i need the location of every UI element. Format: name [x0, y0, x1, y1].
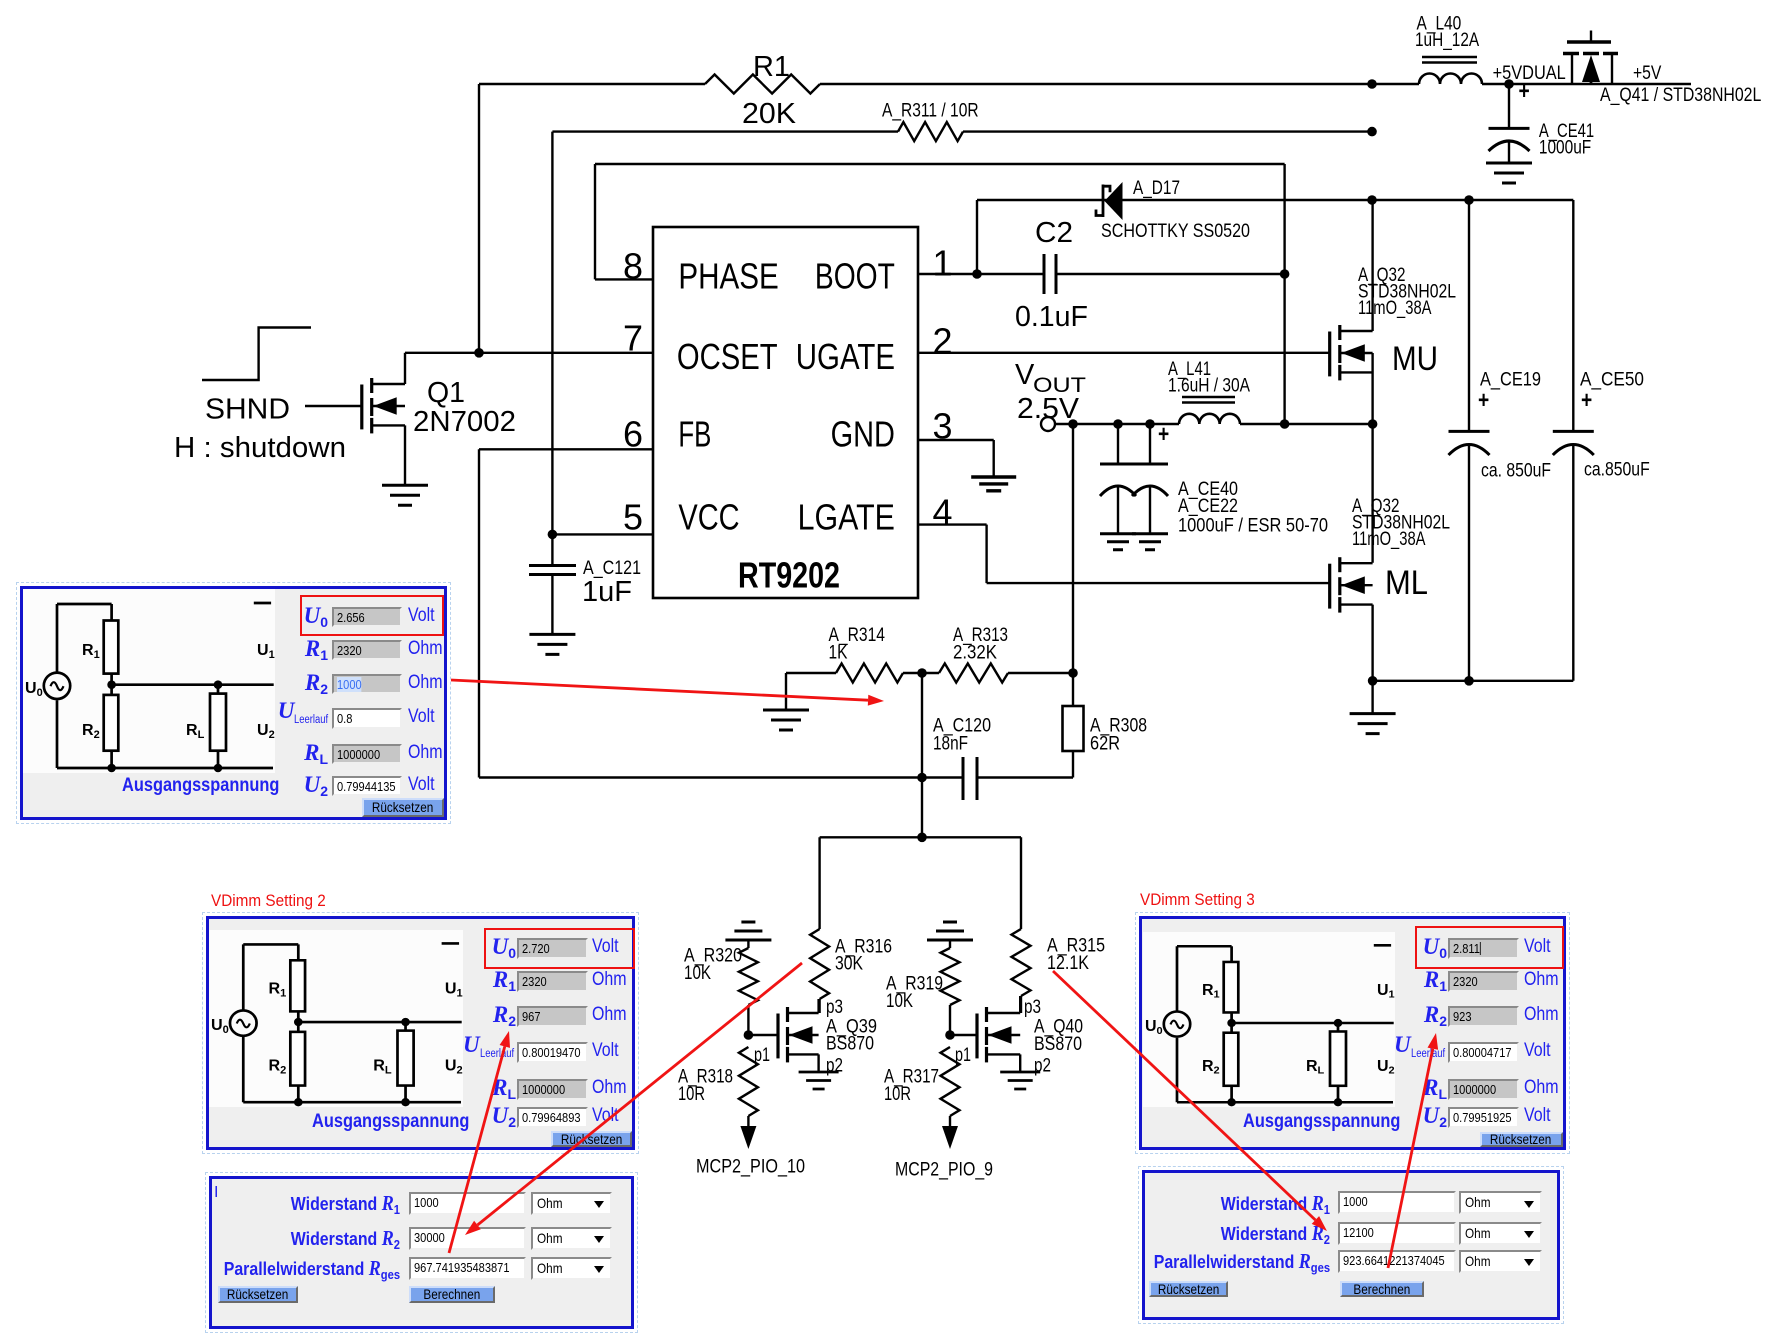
svg-text:RL: RL: [373, 1058, 392, 1077]
svg-text:1: 1: [933, 242, 953, 283]
svg-text:ML: ML: [1385, 564, 1428, 602]
svg-text:BOOT: BOOT: [815, 255, 895, 296]
svg-text:4: 4: [933, 492, 953, 533]
svg-text:RT9202: RT9202: [738, 555, 840, 596]
svg-text:p2: p2: [826, 1056, 843, 1077]
svg-text:62R: 62R: [1090, 734, 1120, 755]
svg-text:p1: p1: [955, 1045, 971, 1066]
svg-text:1000uF / ESR 50-70: 1000uF / ESR 50-70: [1178, 516, 1328, 537]
svg-text:p3: p3: [826, 997, 843, 1018]
svg-text:GND: GND: [831, 413, 895, 454]
svg-text:R1: R1: [268, 981, 286, 1000]
svg-text:10R: 10R: [884, 1084, 911, 1105]
svg-text:1.6uH / 30A: 1.6uH / 30A: [1168, 376, 1250, 397]
svg-text:11mO_38A: 11mO_38A: [1358, 298, 1432, 319]
svg-text:Q1: Q1: [427, 377, 465, 409]
svg-text:20K: 20K: [742, 98, 797, 130]
svg-text:A_D17: A_D17: [1133, 178, 1180, 199]
svg-text:10K: 10K: [886, 991, 913, 1012]
svg-text:11mO_38A: 11mO_38A: [1352, 529, 1426, 550]
svg-text:2N7002: 2N7002: [413, 406, 516, 438]
svg-text:U0: U0: [1145, 1018, 1163, 1036]
svg-text:5: 5: [623, 496, 643, 537]
svg-text:1uH_12A: 1uH_12A: [1415, 30, 1479, 51]
svg-text:ca.850uF: ca.850uF: [1584, 460, 1650, 481]
svg-text:U0: U0: [25, 680, 43, 699]
svg-text:RL: RL: [186, 722, 205, 741]
svg-text:10R: 10R: [678, 1084, 705, 1105]
svg-text:OCSET: OCSET: [677, 336, 778, 377]
svg-text:6: 6: [623, 413, 643, 454]
svg-text:1K: 1K: [829, 643, 848, 664]
svg-text:10K: 10K: [684, 963, 711, 984]
svg-text:R1: R1: [753, 51, 790, 83]
svg-text:ca. 850uF: ca. 850uF: [1481, 461, 1551, 482]
svg-text:LGATE: LGATE: [798, 496, 895, 537]
svg-text:R2: R2: [82, 722, 100, 741]
svg-text:30K: 30K: [835, 954, 863, 975]
svg-text:UGATE: UGATE: [796, 336, 895, 377]
svg-text:FB: FB: [678, 413, 711, 454]
svg-text:VCC: VCC: [678, 496, 739, 537]
svg-text:12.1K: 12.1K: [1047, 953, 1089, 974]
svg-text:8: 8: [623, 245, 643, 286]
svg-text:R2: R2: [1202, 1058, 1220, 1076]
svg-text:+5V: +5V: [1633, 63, 1662, 84]
svg-text:U2: U2: [445, 1058, 463, 1077]
svg-text:PHASE: PHASE: [678, 255, 778, 296]
svg-text:p3: p3: [1024, 997, 1041, 1018]
svg-text:A_CE22: A_CE22: [1178, 496, 1238, 517]
svg-text:U0: U0: [211, 1017, 229, 1036]
svg-text:p2: p2: [1034, 1056, 1051, 1077]
svg-text:C2: C2: [1035, 217, 1073, 249]
svg-text:2.32K: 2.32K: [953, 643, 997, 664]
svg-text:H : shutdown: H : shutdown: [174, 432, 346, 464]
svg-text:R2: R2: [268, 1058, 286, 1077]
svg-text:SCHOTTKY SS0520: SCHOTTKY SS0520: [1101, 221, 1250, 242]
svg-text:MCP2_PIO_10: MCP2_PIO_10: [696, 1157, 805, 1178]
svg-text:A_R311 / 10R: A_R311 / 10R: [882, 101, 979, 122]
svg-text:1000uF: 1000uF: [1539, 138, 1591, 159]
svg-text:+: +: [1478, 387, 1489, 414]
svg-text:MU: MU: [1392, 340, 1438, 378]
svg-text:2: 2: [933, 321, 953, 362]
svg-text:18nF: 18nF: [933, 734, 968, 755]
svg-text:A_Q41 / STD38NH02L: A_Q41 / STD38NH02L: [1600, 85, 1761, 106]
svg-text:V: V: [1015, 359, 1035, 391]
svg-text:R1: R1: [1202, 982, 1220, 1000]
svg-text:7: 7: [623, 318, 643, 359]
svg-text:R1: R1: [82, 642, 100, 661]
svg-text:RL: RL: [1306, 1058, 1325, 1076]
svg-text:BS870: BS870: [826, 1034, 874, 1055]
svg-text:1uF: 1uF: [582, 576, 632, 608]
svg-text:+: +: [1581, 387, 1592, 414]
svg-text:+: +: [1519, 78, 1530, 105]
svg-text:+: +: [1158, 421, 1169, 448]
svg-text:MCP2_PIO_9: MCP2_PIO_9: [895, 1160, 993, 1181]
svg-text:0.1uF: 0.1uF: [1015, 301, 1088, 333]
svg-text:U2: U2: [257, 722, 275, 741]
svg-text:p1: p1: [754, 1045, 770, 1066]
svg-text:SHND: SHND: [205, 394, 290, 426]
svg-text:BS870: BS870: [1034, 1034, 1082, 1055]
